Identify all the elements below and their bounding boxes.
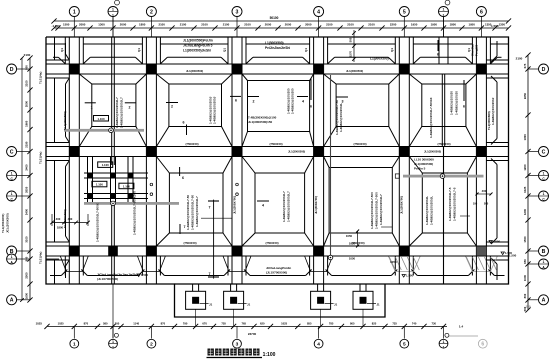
svg-text:7.4B(300X500)@100: 7.4B(300X500)@100 <box>248 116 277 120</box>
elevator pit columns <box>87 173 93 179</box>
svg-text:400: 400 <box>68 217 73 221</box>
svg-text:1: 1 <box>73 341 76 347</box>
svg-text:400: 400 <box>482 189 487 193</box>
svg-text:1600: 1600 <box>25 292 29 299</box>
svg-text:670: 670 <box>202 322 207 326</box>
svg-text:JL1(300X500): JL1(300X500) <box>424 149 441 153</box>
svg-text:3: 3 <box>236 9 239 15</box>
svg-text:2100: 2100 <box>347 23 354 27</box>
svg-text:2100: 2100 <box>244 23 251 27</box>
svg-text:Q1: Q1 <box>60 48 64 52</box>
right grid bubbles <box>539 64 549 74</box>
svg-text:1: 1 <box>543 260 545 264</box>
svg-text:2000: 2000 <box>305 23 312 27</box>
svg-text:1: 1 <box>443 340 445 344</box>
svg-text:D: D <box>10 67 14 73</box>
svg-text:1025: 1025 <box>281 322 287 326</box>
raft slab outline <box>46 37 509 284</box>
svg-text:(JL1X700X500): (JL1X700X500) <box>97 277 118 281</box>
svg-text:100: 100 <box>473 202 478 206</box>
svg-text:740: 740 <box>412 322 417 326</box>
svg-text:6: 6 <box>463 105 465 109</box>
svg-text:1-4B8X2@100/200JL: 1-4B8X2@100/200JL <box>425 196 429 225</box>
bay panel 8 thickened slab with corner slopes <box>329 168 392 234</box>
section bar b <box>84 202 179 205</box>
svg-text:1500: 1500 <box>63 23 70 27</box>
svg-text:TL1(300X600): TL1(300X600) <box>1 214 5 233</box>
svg-text:C: C <box>10 149 14 155</box>
right dimension chain <box>527 55 529 310</box>
svg-text:TL1(300X600): TL1(300X600) <box>63 209 67 228</box>
svg-text:JL1(300X500): JL1(300X500) <box>186 69 203 73</box>
svg-text:1: 1 <box>443 8 445 12</box>
dim cluster 1050 mid <box>357 231 359 246</box>
left edge pedestals <box>46 59 69 61</box>
svg-text:1: 1 <box>543 172 545 176</box>
svg-text:1.500: 1.500 <box>141 273 148 277</box>
svg-text:2100: 2100 <box>223 23 230 27</box>
svg-text:1: 1 <box>73 9 76 15</box>
svg-text:2250: 2250 <box>523 92 527 99</box>
svg-text:1950: 1950 <box>431 23 438 27</box>
svg-text:PeiJinJianJieShi: PeiJinJianJieShi <box>265 46 290 50</box>
axis 5/1 wall line <box>441 74 443 147</box>
right axis leaders <box>528 68 538 70</box>
svg-text:4: 4 <box>317 9 320 15</box>
svg-text:Q1: Q1 <box>137 48 141 52</box>
svg-text:6: 6 <box>437 53 439 57</box>
svg-text:JL1(300X700): JL1(300X700) <box>400 196 404 214</box>
svg-text:790: 790 <box>183 322 188 326</box>
text leaders <box>201 217 232 219</box>
svg-text:2100: 2100 <box>180 23 187 27</box>
svg-text:L1(300X500)JieShi: L1(300X500)JieShi <box>183 49 211 53</box>
svg-text:1800: 1800 <box>57 226 64 230</box>
svg-text:6: 6 <box>235 99 237 103</box>
bay panel 3 thickened slab with corner slopes <box>248 81 310 132</box>
bay panel 5 thickened slab with corner slopes <box>422 84 466 127</box>
svg-text:J1: J1 <box>247 303 251 307</box>
svg-text:1025: 1025 <box>58 322 64 326</box>
svg-text:(750X150): (750X150) <box>353 142 366 146</box>
top grid bubbles 1-6 <box>69 7 79 17</box>
svg-text:3100: 3100 <box>25 236 29 243</box>
svg-text:755: 755 <box>221 322 226 326</box>
bottom grid bubbles <box>73 326 75 338</box>
svg-text:1050: 1050 <box>349 257 356 261</box>
svg-text:1.500: 1.500 <box>491 24 499 28</box>
elevation marks <box>137 274 140 277</box>
svg-text:2050: 2050 <box>25 186 29 193</box>
svg-text:JL1(300X700): JL1(300X700) <box>314 196 318 214</box>
svg-text:1-4B8X2@100/200JL7-500X300: 1-4B8X2@100/200JL7-500X300 <box>133 191 137 235</box>
svg-text:800: 800 <box>523 293 527 298</box>
svg-text:1-4B8X2@100/200JL: 1-4B8X2@100/200JL <box>339 103 343 132</box>
bay panel 1 thickened slab with corner slopes <box>92 84 136 127</box>
svg-text:730: 730 <box>432 322 437 326</box>
svg-text:500: 500 <box>523 306 527 311</box>
svg-text:JiChuLiangPeiJin: JiChuLiangPeiJin <box>266 266 291 270</box>
svg-text:2100: 2100 <box>25 80 29 87</box>
svg-text:1-4B8X2@100/200JL7-50: 1-4B8X2@100/200JL7-50 <box>186 195 190 230</box>
svg-text:650: 650 <box>523 259 527 264</box>
frame columns (black squares) <box>70 64 80 73</box>
svg-text:1: 1 <box>543 192 545 196</box>
svg-text:6: 6 <box>480 9 483 15</box>
svg-text:2000: 2000 <box>120 23 127 27</box>
svg-text:Q1: Q1 <box>390 48 394 52</box>
svg-text:1800: 1800 <box>450 23 457 27</box>
svg-text:JL1(300X500)PeiJin: JL1(300X500)PeiJin <box>183 39 213 43</box>
svg-text:1000: 1000 <box>523 274 527 281</box>
top edge pedestals at columns <box>64 37 66 64</box>
svg-text:7: 7 <box>209 272 211 276</box>
svg-text:Q1: Q1 <box>223 48 227 52</box>
elevator pit beams <box>84 172 148 174</box>
svg-text:2: 2 <box>150 341 153 347</box>
column 6-B hatched <box>477 246 487 255</box>
svg-text:2000: 2000 <box>25 100 29 107</box>
right edge strip line <box>496 41 498 56</box>
svg-text:4: 4 <box>317 341 320 347</box>
svg-text:1800: 1800 <box>523 134 527 141</box>
svg-text:1025: 1025 <box>36 322 43 326</box>
svg-text:LL10 300X500: LL10 300X500 <box>414 158 434 162</box>
svg-text:620: 620 <box>260 322 265 326</box>
left edge strip line <box>54 37 56 60</box>
svg-text:TL1(300X600): TL1(300X600) <box>487 111 491 130</box>
svg-text:1.500: 1.500 <box>406 274 413 278</box>
svg-text:1-4B8X2@100/200JL7-50: 1-4B8X2@100/200JL7-50 <box>191 195 195 230</box>
pit label boxes <box>98 162 113 168</box>
svg-text:1025: 1025 <box>523 186 527 193</box>
pile circles on beams <box>150 183 153 186</box>
horizontal foundation beams on axes D C B <box>46 63 509 65</box>
svg-text:L1(300X500): L1(300X500) <box>370 57 389 61</box>
svg-text:1-4B8X2@100/200JL7: 1-4B8X2@100/200JL7 <box>115 97 119 128</box>
svg-text:2100: 2100 <box>24 53 31 57</box>
svg-text:-1.500: -1.500 <box>52 24 61 28</box>
svg-text:1: 1 <box>11 255 13 259</box>
svg-text:6: 6 <box>183 121 185 125</box>
svg-text:6: 6 <box>182 176 184 180</box>
svg-text:50100: 50100 <box>270 16 279 20</box>
svg-text:2: 2 <box>171 105 173 109</box>
svg-text:1-4B8X2@100/200JL7-500: 1-4B8X2@100/200JL7-500 <box>375 192 379 229</box>
top pedestal sub-axis 5a <box>438 37 440 64</box>
svg-text:JL1(300X500): JL1(300X500) <box>414 162 433 166</box>
svg-text:805: 805 <box>350 322 355 326</box>
svg-text:1-4B8X2@100/200JL7-500X3: 1-4B8X2@100/200JL7-500X3 <box>429 97 433 138</box>
svg-text:Feng120: Feng120 <box>475 44 479 56</box>
svg-text:(750X150): (750X150) <box>437 142 450 146</box>
bay panel 7 thickened slab with corner slopes <box>255 173 305 233</box>
svg-text:23700: 23700 <box>248 332 257 336</box>
svg-text:2000: 2000 <box>285 23 292 27</box>
svg-text:1950: 1950 <box>468 23 475 27</box>
svg-text:1.100: 1.100 <box>98 117 105 121</box>
svg-text:JiChuLiangPeiJinJianJieShi: JiChuLiangPeiJinJianJieShi <box>97 273 137 277</box>
svg-text:725: 725 <box>392 322 397 326</box>
svg-text:L1(300X500): L1(300X500) <box>265 41 284 45</box>
axis 1/1 wall line <box>111 37 113 165</box>
svg-text:JL1(300X700): JL1(300X700) <box>232 196 236 214</box>
dim cluster top near 5 <box>353 30 355 62</box>
svg-text:675: 675 <box>523 63 527 68</box>
svg-text:A: A <box>10 298 14 304</box>
left grid bubbles <box>7 64 17 74</box>
svg-text:JL1(300X500): JL1(300X500) <box>288 149 305 153</box>
svg-text:1140: 1140 <box>133 322 139 326</box>
bay panel 2 thickened slab with corner slopes <box>169 84 222 127</box>
svg-text:JCL(300X500): JCL(300X500) <box>6 213 10 233</box>
svg-text:2100: 2100 <box>516 57 523 61</box>
svg-text:TL01(4a): TL01(4a) <box>39 72 43 84</box>
svg-text:2400: 2400 <box>25 164 29 171</box>
pier rect beam5 <box>395 174 399 178</box>
svg-text:J1: J1 <box>376 303 380 307</box>
svg-text:1: 1 <box>443 345 445 349</box>
svg-text:1950: 1950 <box>411 23 418 27</box>
svg-text:6: 6 <box>481 342 484 348</box>
svg-text:1960: 1960 <box>25 120 29 127</box>
svg-text:1800: 1800 <box>139 23 146 27</box>
svg-text:1-4B8X2@100/200: 1-4B8X2@100/200 <box>291 88 295 114</box>
svg-text:A: A <box>542 298 546 304</box>
dim cluster 400 <box>52 222 88 224</box>
pile cap trapezoids below row B cols 1-4 <box>60 256 88 272</box>
svg-text:1.100: 1.100 <box>96 183 103 187</box>
svg-text:4: 4 <box>302 100 304 104</box>
svg-text:1: 1 <box>91 106 93 110</box>
svg-text:2100: 2100 <box>326 23 333 27</box>
svg-text:2190: 2190 <box>25 141 29 148</box>
svg-text:2100: 2100 <box>368 23 375 27</box>
title JiChuPingMianBuZhiTu 1:100 <box>208 349 214 356</box>
svg-text:870: 870 <box>161 322 166 326</box>
svg-text:1: 1 <box>443 13 445 17</box>
svg-text:1550: 1550 <box>523 236 527 243</box>
svg-text:1-4B8X2@100/200J: 1-4B8X2@100/200J <box>213 96 217 124</box>
svg-text:J1: J1 <box>209 303 213 307</box>
svg-text:1-4B8X2@100/200JL7: 1-4B8X2@100/200JL7 <box>195 196 199 227</box>
svg-text:825: 825 <box>372 322 377 326</box>
svg-text:2200: 2200 <box>390 23 397 27</box>
section line 7-7 <box>213 200 215 279</box>
isolated footings J1 in extension <box>186 291 206 309</box>
top dimension chain <box>54 27 509 29</box>
svg-text:C: C <box>542 149 546 155</box>
svg-text:TL1(300X600): TL1(300X600) <box>63 111 67 130</box>
svg-text:1-4B8X2@100/200JL7: 1-4B8X2@100/200JL7 <box>282 191 286 222</box>
bay panel 9 thickened slab with corner slopes <box>422 173 467 233</box>
svg-text:1300: 1300 <box>98 23 105 27</box>
svg-text:(750X150): (750X150) <box>269 142 282 146</box>
section bar c <box>403 175 484 178</box>
svg-text:1-4B8X2@100/20: 1-4B8X2@100/20 <box>450 91 454 115</box>
svg-text:1-4B8X2@100/200JL7: 1-4B8X2@100/200JL7 <box>379 194 383 225</box>
svg-text:2100: 2100 <box>158 23 165 27</box>
svg-text:2500: 2500 <box>25 272 29 279</box>
svg-text:Q1: Q1 <box>304 48 308 52</box>
svg-text:1: 1 <box>112 345 114 349</box>
svg-text:580: 580 <box>103 322 108 326</box>
svg-text:J1: J1 <box>334 303 338 307</box>
right edge pedestals <box>486 59 508 61</box>
svg-text:300: 300 <box>115 322 120 326</box>
svg-text:1050: 1050 <box>390 260 397 264</box>
svg-text:2100: 2100 <box>201 23 208 27</box>
svg-text:1: 1 <box>112 340 114 344</box>
svg-text:1200: 1200 <box>523 208 527 215</box>
svg-text:1: 1 <box>11 192 13 196</box>
svg-text:7: 7 <box>184 225 186 229</box>
svg-text:1: 1 <box>11 172 13 176</box>
svg-text:B: B <box>542 249 546 255</box>
top axis leaders <box>73 17 75 37</box>
svg-text:TL01(4a): TL01(4a) <box>39 152 43 164</box>
svg-text:(750X150): (750X150) <box>185 142 198 146</box>
svg-text:1570: 1570 <box>349 50 353 57</box>
bottom edge strip line <box>50 275 61 277</box>
svg-text:3: 3 <box>236 341 239 347</box>
svg-text:1.100: 1.100 <box>102 163 109 167</box>
svg-text:1-4B8X2@100/200JL7: 1-4B8X2@100/200JL7 <box>287 191 291 222</box>
svg-text:JiChuLiangPeiJin 5: JiChuLiangPeiJin 5 <box>183 44 213 48</box>
left dimension chain <box>29 58 31 300</box>
svg-text:855: 855 <box>307 322 312 326</box>
svg-text:6: 6 <box>310 105 312 109</box>
svg-text:2000: 2000 <box>265 23 272 27</box>
svg-text:2: 2 <box>253 100 255 104</box>
svg-text:TL01(4a): TL01(4a) <box>39 252 43 264</box>
bottom edge pedestals <box>64 256 66 276</box>
svg-text:1-4B8X2@100/200JL7-500: 1-4B8X2@100/200JL7-500 <box>370 192 374 229</box>
svg-text:1-4B8X2@100/200JL7-500X: 1-4B8X2@100/200JL7-500X <box>96 203 100 242</box>
bottom dimension chain <box>47 325 447 327</box>
svg-text:1200: 1200 <box>523 164 527 171</box>
svg-text:5: 5 <box>403 9 406 15</box>
svg-text:1.100: 1.100 <box>123 185 130 189</box>
svg-text:(750X150): (750X150) <box>183 241 196 245</box>
svg-text:1-4B8X2@100/200J: 1-4B8X2@100/200J <box>491 97 495 125</box>
section line x330 <box>330 75 332 257</box>
left axis leaders <box>17 68 30 70</box>
svg-text:1: 1 <box>112 13 114 17</box>
svg-text:1050: 1050 <box>346 234 353 238</box>
svg-text:2000: 2000 <box>79 23 86 27</box>
svg-text:1:4: 1:4 <box>459 325 464 329</box>
top edge strip lines <box>46 43 65 45</box>
svg-text:400: 400 <box>56 217 61 221</box>
svg-text:PeiJin 5: PeiJin 5 <box>414 167 426 171</box>
svg-text:2: 2 <box>150 9 153 15</box>
bay panel 4 thickened slab with corner slopes <box>336 84 389 127</box>
hatched pile caps below columns 5 and 6 <box>388 256 420 272</box>
svg-text:(750X150): (750X150) <box>265 241 278 245</box>
svg-text:(JL1X700X500): (JL1X700X500) <box>266 271 287 275</box>
svg-text:1-4B8X2@100/200JL: 1-4B8X2@100/200JL <box>430 196 434 225</box>
svg-text:1: 1 <box>112 8 114 12</box>
svg-text:1-4B8X2@100/200JL7-5: 1-4B8X2@100/200JL7-5 <box>448 187 452 221</box>
svg-text:870: 870 <box>84 322 89 326</box>
vertical foundation beams on axes 1-6 <box>68 37 70 284</box>
svg-text:1.500: 1.500 <box>493 240 500 244</box>
svg-text:D: D <box>542 67 546 73</box>
section bar a <box>64 129 144 132</box>
svg-text:7: 7 <box>209 206 211 210</box>
bay panel 6 thickened slab with corner slopes <box>169 173 223 233</box>
svg-text:1:100: 1:100 <box>263 352 276 358</box>
svg-text:JL1(300X500): JL1(300X500) <box>346 69 363 73</box>
axis 1/A stub <box>46 258 59 260</box>
svg-text:785: 785 <box>329 322 334 326</box>
svg-text:5: 5 <box>403 341 406 347</box>
svg-text:2400: 2400 <box>25 208 29 215</box>
svg-text:4: 4 <box>262 204 264 208</box>
svg-text:1-4B8X2@100/200JL7: 1-4B8X2@100/200JL7 <box>120 97 124 128</box>
svg-text:2: 2 <box>129 106 131 110</box>
svg-text:1050: 1050 <box>349 242 356 246</box>
svg-text:1-4B8X2@100/200JL7-5: 1-4B8X2@100/200JL7-5 <box>453 187 457 221</box>
svg-text:1.500: 1.500 <box>509 254 517 258</box>
svg-text:765: 765 <box>242 322 247 326</box>
svg-text:1-4B8X2@100/20: 1-4B8X2@100/20 <box>455 91 459 115</box>
svg-text:500: 500 <box>484 202 489 206</box>
svg-text:JL1(300X500)150: JL1(300X500)150 <box>248 120 273 124</box>
svg-text:500: 500 <box>349 37 353 42</box>
svg-text:1350: 1350 <box>499 23 506 27</box>
